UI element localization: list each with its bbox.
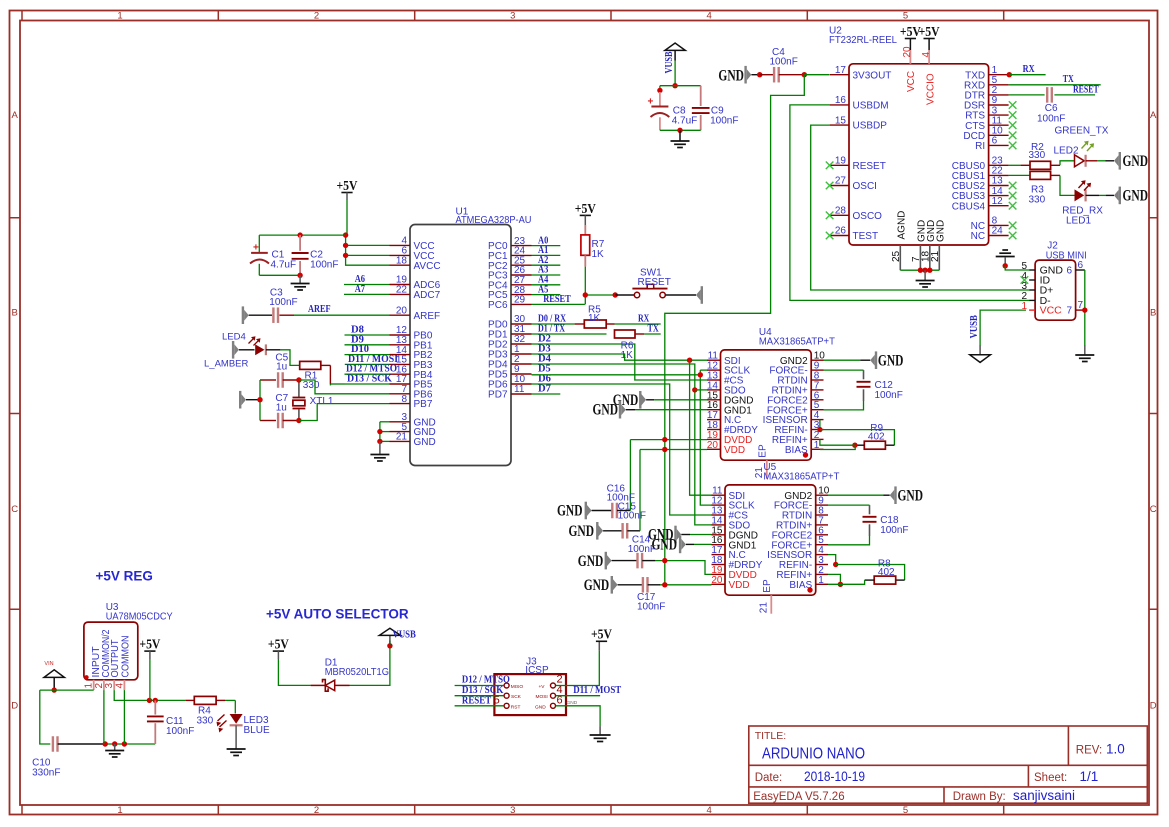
stem	[584, 215, 586, 225]
U1 pin 26 PC3	[511, 274, 532, 276]
wire	[1099, 194, 1106, 196]
svg-text:VDD: VDD	[724, 445, 745, 456]
gnd stem	[924, 270, 926, 280]
U5 pin 4 ISENSOR	[816, 554, 828, 556]
svg-text:A: A	[1150, 110, 1157, 121]
wire	[884, 494, 890, 496]
U5 pin 16 GND1	[712, 544, 726, 546]
J2 pin 2 D-	[1029, 299, 1035, 301]
U4 pin 17 N.C	[707, 419, 721, 421]
U2 pin 11 CTS	[989, 124, 1009, 126]
svg-text:XTL1: XTL1	[310, 396, 334, 407]
svg-text:330: 330	[197, 715, 214, 726]
U2 pin 21 GND	[938, 245, 940, 270]
U5 pin 2 REFIN+	[816, 573, 828, 575]
J2 pin 1 VCC	[1029, 309, 1035, 311]
wire REFIN+	[820, 440, 855, 446]
svg-text:A: A	[12, 110, 19, 121]
svg-text:6: 6	[1067, 266, 1073, 277]
U1 pin 32 PD2	[511, 343, 532, 345]
wire R1 down to PB5 row (D13)	[330, 383, 344, 385]
svg-text:Sheet:: Sheet:	[1034, 772, 1067, 784]
R5 left stub	[575, 323, 585, 325]
IC U4 MAX31865ATP+T body	[721, 350, 812, 460]
U1 pin 8 PB7	[390, 403, 411, 405]
wire	[760, 74, 774, 76]
svg-text:27: 27	[835, 176, 847, 187]
U5 pin 17 N.C	[712, 554, 726, 556]
resistor R9 402	[864, 441, 885, 449]
wires U4 DVDD/VDD from 3V3 rail	[630, 439, 707, 441]
svg-text:GND: GND	[1123, 153, 1149, 170]
svg-text:VIN: VIN	[44, 661, 53, 667]
svg-text:18: 18	[396, 255, 408, 266]
svg-text:RX: RX	[1023, 63, 1035, 75]
gnd flag LED2	[1114, 155, 1119, 166]
U1 pin 7 PB6	[390, 393, 411, 395]
U4 pin 3 REFIN-	[811, 429, 823, 431]
svg-text:VCCIO: VCCIO	[926, 73, 937, 105]
earth ground U1	[370, 454, 389, 456]
svg-text:22: 22	[396, 285, 408, 296]
U2 pin 24 NC	[989, 235, 1009, 237]
svg-text:100nF: 100nF	[269, 297, 297, 308]
svg-text:GND: GND	[578, 553, 604, 570]
svg-text:sanjivsaini: sanjivsaini	[1013, 788, 1075, 803]
U5 pin 8 RTDIN	[816, 514, 828, 516]
no-connect X J2 ID	[1021, 276, 1029, 284]
svg-text:UA78M05CDCY: UA78M05CDCY	[106, 611, 173, 622]
+5V power symbol	[905, 38, 916, 40]
svg-text:100nF: 100nF	[618, 510, 646, 521]
capacitor C12 100nF across FORCE-/FORCE+	[824, 369, 864, 371]
RESET wire from DTR through C6	[1009, 94, 1045, 96]
svg-text:GND: GND	[898, 487, 924, 504]
U1 pin 11 PD7	[511, 393, 532, 395]
XTL1 plate bottom	[293, 408, 306, 410]
frame tick bottom	[610, 805, 612, 815]
wire	[612, 560, 638, 562]
svg-text:5: 5	[903, 805, 908, 816]
frame tick bottom	[806, 805, 808, 815]
IC U1 ATMEGA328P-AU body	[410, 225, 511, 466]
svg-text:GND: GND	[567, 700, 578, 706]
+5V power symbol	[580, 214, 591, 216]
title block REV divider	[1067, 726, 1069, 765]
wire C15 to VDD	[639, 450, 641, 531]
wire 3V3OUT to U4/U5 power	[665, 75, 805, 585]
svg-text:NC: NC	[971, 231, 985, 242]
junction SW1 pin	[613, 292, 618, 297]
U3 pin1 dot	[84, 675, 88, 679]
earth ground J2 pin5	[996, 256, 1015, 258]
LED3 cathode bar	[230, 724, 243, 726]
junction XTL1 bottom	[296, 418, 301, 423]
svg-text:PB7: PB7	[414, 399, 433, 410]
svg-text:1: 1	[818, 575, 824, 586]
U1 pin 13 PB1	[390, 344, 411, 346]
svg-text:21: 21	[396, 432, 408, 443]
svg-text:4: 4	[707, 805, 712, 816]
svg-text:100nF: 100nF	[637, 602, 665, 613]
wire	[751, 74, 759, 76]
U1 pin 25 PC2	[511, 264, 532, 266]
U2 pin 17 3V3OUT	[830, 74, 849, 76]
wire pin4 down	[123, 690, 125, 744]
svg-text:15: 15	[835, 115, 847, 126]
svg-text:GREEN_TX: GREEN_TX	[1055, 125, 1109, 136]
svg-text:USBDP: USBDP	[853, 121, 888, 132]
svg-text:ADC7: ADC7	[414, 290, 441, 301]
J2 pin7 stub	[1076, 309, 1085, 311]
wire	[283, 420, 299, 422]
U4 pin 1 BIAS	[811, 448, 823, 450]
wire	[260, 379, 276, 381]
svg-text:B: B	[1150, 308, 1156, 319]
earth ground C8/C9	[671, 140, 690, 142]
svg-text:3V3OUT: 3V3OUT	[853, 70, 892, 81]
svg-text:+V: +V	[539, 684, 546, 690]
junction C2 top	[297, 232, 302, 237]
diode D1 MBR0520LT1G	[311, 684, 326, 686]
wire XTL1 bottom to PB7	[299, 404, 390, 421]
LED2 cathode bar	[1084, 155, 1086, 167]
svg-text:28: 28	[835, 206, 847, 217]
J2 pin 5 GND	[1029, 269, 1035, 271]
U5 pin 6 FORCE2	[816, 534, 828, 536]
wire pin4	[346, 244, 390, 246]
svg-text:GND: GND	[718, 67, 744, 84]
gnd flag C17	[613, 579, 618, 590]
U2 pin 26 TEST	[830, 235, 849, 237]
capacitor C4 100nF	[773, 67, 775, 83]
wire C5/C7 left rail to gnd flag	[259, 380, 261, 421]
IC U2 FT232RL-REEL body	[849, 64, 989, 245]
resistor R6 1K in D1 row	[615, 330, 636, 338]
wire C14 to U5 DVDD	[655, 561, 711, 575]
svg-text:MISO: MISO	[511, 684, 524, 690]
wire	[249, 314, 272, 316]
wire	[603, 530, 622, 532]
wire RX	[615, 323, 661, 325]
junction RESET/SW1	[583, 292, 588, 297]
capacitor C18 100nF across FORCE-/FORCE+ U5	[828, 504, 870, 506]
wire USBDP to J2 D+	[811, 125, 1029, 290]
gnd stem	[114, 744, 116, 750]
U5 pin 19 DVDD	[712, 573, 726, 575]
wire	[1106, 160, 1115, 162]
capacitor C6 100nF	[1046, 87, 1048, 103]
U2 pin 22 CBUS1	[989, 174, 1009, 176]
svg-text:GND: GND	[557, 503, 583, 520]
U5 pin 15 DGND	[712, 534, 726, 536]
svg-text:1: 1	[814, 440, 820, 451]
U2 pin 10 DCD	[989, 134, 1009, 136]
capacitor C2 100nF	[299, 235, 301, 251]
earth ground J2 shield	[1075, 354, 1094, 356]
svg-text:1u: 1u	[276, 403, 287, 414]
capacitor C10 330nF	[52, 736, 54, 752]
svg-text:12: 12	[992, 196, 1004, 207]
svg-text:8: 8	[401, 394, 407, 405]
wire	[246, 399, 260, 401]
U1 pin 27 PC4	[511, 284, 532, 286]
svg-text:D: D	[11, 701, 18, 712]
VUSB power flag top	[665, 43, 685, 50]
J2 pin 4 ID	[1029, 279, 1035, 281]
R9 left stub	[855, 444, 864, 446]
J2 VCC to VUSB flag	[980, 310, 1026, 345]
junction SDI net	[687, 358, 692, 363]
svg-text:ARDUNIO NANO: ARDUNIO NANO	[762, 746, 865, 763]
svg-text:1: 1	[117, 805, 122, 816]
wire D3 row	[532, 354, 708, 360]
U2 pin 9 DSR	[989, 104, 1009, 106]
U3 pin 2 stub	[103, 680, 105, 690]
U1 pin 2 PD4	[511, 363, 532, 365]
svg-text:GND: GND	[935, 220, 946, 242]
net wires A6/A7	[344, 284, 390, 286]
U5 pin 20 VDD	[712, 583, 726, 585]
XTL1 stem top	[298, 382, 300, 397]
svg-text:GND: GND	[569, 523, 595, 540]
J3 pin circle right row	[551, 703, 556, 708]
U1 pin 10 PD6	[511, 383, 532, 385]
svg-text:+5V REG: +5V REG	[96, 569, 153, 584]
svg-text:RESET: RESET	[462, 694, 492, 706]
gnd flag LED1	[1114, 190, 1119, 201]
svg-text:20: 20	[902, 46, 913, 58]
capacitor C1 4.7uF electrolytic	[258, 235, 260, 253]
svg-text:4: 4	[707, 11, 712, 22]
svg-text:1u: 1u	[276, 362, 287, 373]
R8 left stub	[865, 579, 875, 581]
svg-text:EP: EP	[758, 444, 769, 458]
gnd flag SW1	[696, 290, 701, 301]
svg-text:7: 7	[1067, 306, 1073, 317]
svg-text:VCC: VCC	[1040, 305, 1063, 317]
svg-text:21: 21	[759, 602, 770, 614]
U1 pin 17 PB5	[390, 383, 411, 385]
wire VIN row	[40, 689, 94, 691]
U5 pin 18 #DRDY	[712, 564, 726, 566]
SW1 button	[647, 284, 654, 288]
title block Sheet divider	[1027, 765, 1029, 787]
wire D7 stub	[532, 393, 561, 395]
wire C16 to DVDD	[629, 440, 631, 511]
junction 3V3OUT	[802, 72, 807, 77]
svg-text:100nF: 100nF	[628, 544, 656, 555]
wire BIAS	[820, 445, 855, 449]
wire D0 row to R5	[532, 323, 575, 325]
svg-text:3: 3	[510, 11, 515, 22]
svg-text:MAX31865ATP+T: MAX31865ATP+T	[763, 472, 839, 483]
svg-text:4.7uF: 4.7uF	[271, 260, 297, 271]
wire to SW1	[585, 294, 615, 296]
svg-text:SCK: SCK	[511, 694, 522, 700]
wire LED4 to R1	[280, 350, 299, 366]
wire USBDM to J2 D-	[790, 105, 1029, 301]
R7 top stub	[584, 225, 586, 235]
U1 pin 9 PD5	[511, 373, 532, 375]
wire	[329, 384, 331, 385]
svg-text:GND: GND	[878, 352, 904, 369]
svg-text:REV:: REV:	[1076, 745, 1102, 757]
wire C1/C2 bottom to ground	[259, 274, 300, 276]
U5 pin 3 REFIN-	[816, 564, 828, 566]
U3 pin 3 stub	[113, 680, 115, 690]
wire +5V to VCC pins	[346, 235, 390, 265]
connector J2 USB MINI body	[1035, 260, 1076, 320]
J3 pin circle left row	[504, 683, 509, 688]
frame tick top	[21, 11, 23, 21]
+5V power symbol	[273, 650, 284, 652]
svg-text:21: 21	[930, 250, 941, 262]
frame tick left	[10, 217, 21, 219]
U1 pin 24 PC1	[511, 254, 532, 256]
+5V power symbol	[341, 192, 352, 194]
R2 330 to LED2 GREEN_TX	[1009, 164, 1021, 166]
capacitor C11 100nF	[154, 700, 156, 714]
svg-text:1/1: 1/1	[1080, 769, 1099, 784]
svg-text:AVCC: AVCC	[414, 261, 441, 272]
wire XTL1 top to PB6	[299, 380, 390, 394]
svg-text:24: 24	[992, 226, 1004, 237]
wire AREF	[294, 314, 390, 316]
svg-text:VDD: VDD	[729, 580, 750, 591]
wire left rail down to C10	[40, 690, 51, 744]
connector J3 ICSP body	[494, 674, 566, 715]
R6 right stub	[635, 333, 644, 335]
title block DrawnBy divider	[943, 787, 945, 803]
gnd stem	[379, 441, 381, 453]
R9 right stub	[885, 444, 894, 446]
J3 GND wire to earth	[556, 706, 600, 726]
svg-text:+5V: +5V	[575, 201, 596, 216]
svg-text:330: 330	[303, 380, 320, 391]
svg-text:RESET: RESET	[638, 277, 671, 288]
svg-text:Date:: Date:	[755, 772, 783, 784]
svg-text:B: B	[12, 308, 18, 319]
svg-text:2: 2	[314, 805, 319, 816]
gnd flag C14	[607, 555, 612, 566]
frame tick bottom	[21, 805, 23, 815]
svg-text:402: 402	[878, 567, 895, 578]
svg-text:1K: 1K	[621, 350, 634, 361]
wire	[860, 359, 870, 361]
U4 pin 13 #CS	[707, 379, 721, 381]
title block row line 1	[749, 764, 1148, 766]
junction XTL1 top	[296, 377, 301, 382]
frame tick bottom	[217, 805, 219, 815]
svg-text:100nF: 100nF	[310, 260, 338, 271]
resistor R4 330	[186, 699, 195, 701]
wire	[642, 560, 655, 562]
earth ground U3	[105, 750, 124, 752]
wire OUTPUT row	[114, 690, 185, 700]
frame tick top	[806, 11, 808, 21]
wire ISENSOR to REFIN-	[819, 420, 821, 430]
svg-text:GND: GND	[535, 704, 546, 710]
U2 pin 3 RTS	[989, 114, 1009, 116]
svg-text:AGND: AGND	[896, 211, 907, 240]
XTL1 plate top	[293, 397, 306, 399]
svg-text:6: 6	[992, 136, 998, 147]
R1 right stub	[321, 364, 331, 366]
wire REFIN+	[828, 574, 840, 584]
svg-text:19: 19	[835, 156, 847, 167]
svg-text:1K: 1K	[588, 313, 601, 324]
svg-text:EP: EP	[762, 579, 773, 593]
U2 pin 13 CBUS2	[989, 185, 1009, 187]
frame tick bottom	[414, 805, 416, 815]
U1 pin 30 PD0	[511, 323, 532, 325]
U4 pin 4 ISENSOR	[811, 419, 823, 421]
U1 pin 14 PB2	[390, 354, 411, 356]
earth ground J3	[590, 734, 611, 736]
U5 pin 5 FORCE+	[816, 544, 828, 546]
svg-text:+: +	[648, 97, 654, 108]
junction VCC6	[343, 253, 348, 258]
R7 bottom stub	[584, 255, 586, 266]
LED1 cathode bar	[1084, 189, 1086, 201]
svg-text:26: 26	[835, 226, 847, 237]
wire	[654, 399, 707, 401]
svg-text:100nF: 100nF	[875, 390, 903, 401]
wire pin2 down	[103, 690, 105, 744]
LED4 cathode bar	[265, 344, 267, 355]
LED2 green	[1075, 155, 1085, 167]
svg-text:GND: GND	[584, 577, 610, 594]
svg-text:20: 20	[707, 440, 719, 451]
svg-text:LED2: LED2	[1054, 145, 1079, 156]
junction gnd rail	[257, 397, 262, 402]
R3 330 to LED1 RED_RX	[1009, 174, 1030, 176]
svg-text:ATMEGA328P-AU: ATMEGA328P-AU	[456, 215, 532, 226]
TX wire from RXD	[1009, 84, 1101, 86]
gnd flag U5 GND2	[890, 490, 895, 501]
U1 pin 21 GND	[390, 440, 411, 442]
wire	[592, 510, 613, 512]
gnd flag C16	[587, 505, 592, 516]
wire D1 to VUSB flag	[350, 646, 390, 686]
frame tick top	[1003, 11, 1005, 21]
svg-text:1: 1	[117, 11, 122, 22]
wire pin6	[346, 254, 390, 256]
capacitor C3 100nF	[272, 307, 274, 323]
svg-text:AREF: AREF	[414, 311, 441, 322]
U1 pin 4 VCC	[390, 244, 411, 246]
U2 pin 14 CBUS3	[989, 195, 1009, 197]
svg-text:OSCO: OSCO	[853, 211, 883, 222]
earth ground LED3	[227, 748, 246, 750]
frame tick left	[10, 608, 21, 610]
U1 pin 22 ADC7	[390, 293, 411, 295]
wire shield to earth	[1084, 270, 1086, 345]
wire	[266, 349, 281, 351]
gnd flag LED4	[234, 344, 239, 355]
+5V power symbol	[144, 650, 155, 652]
U2 pin 23 CBUS0	[989, 164, 1009, 166]
U5 pin 11 SDI	[712, 494, 726, 496]
svg-text:MAX31865ATP+T: MAX31865ATP+T	[759, 337, 835, 348]
gnd flag C4	[747, 69, 752, 80]
wire	[626, 409, 635, 411]
wire	[681, 534, 690, 536]
svg-text:C: C	[11, 504, 18, 515]
svg-text:VUSB: VUSB	[968, 315, 980, 339]
RX wire from TXD	[1007, 72, 1012, 77]
